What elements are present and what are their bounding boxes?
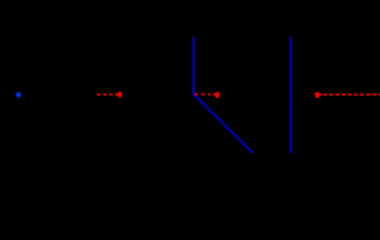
wire W3 (vertical blue net segment, right) [290, 37, 292, 154]
wire W1 (vertical blue net segment) [193, 37, 195, 95]
wire W2 (diagonal blue net segment) [193, 94, 253, 154]
node A (blue wire stub / junction blob) [16, 92, 21, 98]
unconnected pin marker M1 [116, 92, 122, 98]
wire N3 (red dashed dangling net, right, runs off edge) [323, 94, 380, 96]
wire N1 (red dashed dangling net, left) [97, 94, 118, 96]
wire N2 (red dashed dangling net, middle) [195, 93, 216, 95]
unconnected pin marker M3 [315, 92, 322, 98]
unconnected pin marker M2 [213, 92, 219, 98]
